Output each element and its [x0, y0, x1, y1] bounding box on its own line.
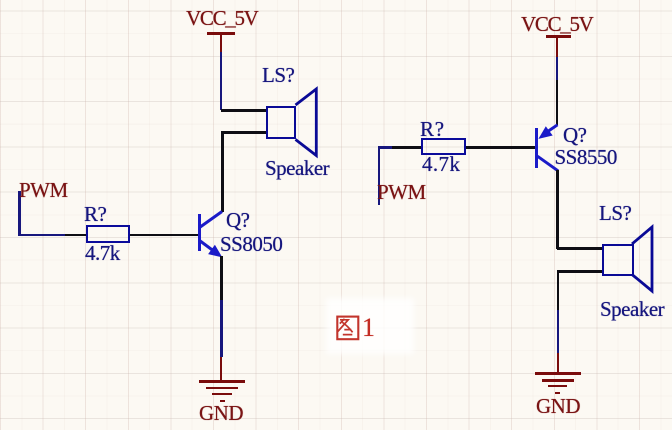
designator LS? (right) [599, 203, 631, 224]
port label PWM (left) [19, 180, 68, 201]
speaker LS? body (left) [266, 106, 297, 139]
figure caption numeral 1 [362, 315, 375, 341]
wire resistor to PWM corner black (left) [65, 234, 87, 236]
ground bar 1 (right) [535, 372, 582, 375]
designator Q? (left) [226, 210, 250, 231]
designator R? (right) [420, 119, 445, 140]
wire power stem red (left) [220, 33, 222, 52]
wire base to resistor (right) [466, 146, 535, 148]
white patch behind figure caption [326, 298, 414, 354]
wire to speaker top (right) [557, 247, 602, 249]
value 4.7k (right) [422, 154, 460, 175]
wire speaker down navy (right) [557, 310, 559, 353]
resistor R? body (left) [86, 225, 130, 243]
ground bar 1 (left) [199, 380, 245, 383]
ground stem (right) [557, 353, 559, 373]
power net label VCC_5V (left) [186, 8, 258, 29]
wire power stem navy (right) [556, 57, 558, 79]
wire base to resistor (left) [130, 234, 198, 236]
comment Speaker (right) [600, 299, 664, 320]
value SS8050 [220, 234, 282, 255]
designator R? (left) [84, 204, 106, 225]
wire PWM port vertical (right) [378, 146, 381, 205]
power symbol VCC bar (left) [207, 32, 235, 35]
transistor Q? SS8050 base bar [198, 214, 201, 251]
ground bar 4 (right) [555, 392, 561, 394]
value SS8550 [555, 147, 617, 168]
wire VCC to speaker top (left) [221, 109, 266, 112]
wire power stem red (right) [556, 36, 558, 57]
wire speaker bottom to corner (left) [222, 131, 266, 134]
wire power stem navy (left) [220, 52, 222, 110]
wire collector down to speaker (right) [556, 170, 558, 249]
ground bar 3 (left) [212, 393, 232, 395]
ground bar 3 (right) [548, 385, 568, 387]
ground stem (left) [220, 357, 222, 382]
designator LS? (left) [262, 65, 294, 86]
power net label VCC_5V (right) [521, 14, 593, 35]
resistor R? body (right) [421, 138, 466, 156]
value 4.7k (left) [85, 243, 120, 264]
ground net label GND (left) [199, 403, 243, 424]
ground bar 4 (left) [220, 400, 226, 402]
transistor Q? SS8550 base bar [535, 128, 538, 167]
wire power stem black to emitter (right) [556, 80, 558, 126]
designator Q? (right) [563, 125, 587, 146]
wire emitter down black (left) [220, 256, 222, 300]
ground bar 2 (right) [542, 379, 575, 381]
wire emitter down navy (left) [220, 300, 222, 357]
port label PWM (right) [377, 182, 426, 203]
comment Speaker (left) [265, 158, 329, 179]
wire speaker down black (right) [557, 270, 559, 310]
wire speaker bottom to corner (right) [558, 270, 602, 272]
wire PWM port vertical (left) [18, 191, 21, 236]
wire resistor to PWM corner black (right) [392, 146, 421, 148]
ground bar 2 (left) [206, 387, 238, 389]
wire resistor to PWM corner navy (left) [18, 234, 65, 236]
wire resistor to PWM corner navy (right) [378, 146, 392, 148]
wire corner down to collector (left) [221, 131, 224, 212]
speaker LS? body (right) [602, 244, 634, 276]
power symbol VCC bar (right) [546, 35, 571, 38]
ground net label GND (right) [536, 396, 580, 417]
